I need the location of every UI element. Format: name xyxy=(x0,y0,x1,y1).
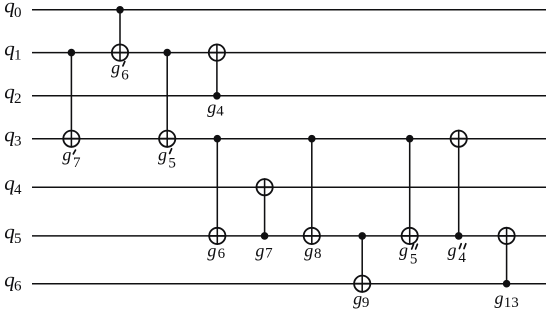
label q0 xyxy=(4,0,21,21)
svg-text:6: 6 xyxy=(14,279,22,295)
label q1 xyxy=(4,36,21,63)
label g''5 xyxy=(399,240,417,267)
label g13 xyxy=(495,288,519,311)
label g'6 xyxy=(111,58,129,84)
svg-text:7: 7 xyxy=(73,155,81,171)
svg-text:9: 9 xyxy=(362,295,370,311)
CNOT gate g4: control q2, target q1 xyxy=(208,44,226,100)
svg-text:5: 5 xyxy=(410,252,418,268)
svg-text:4: 4 xyxy=(14,182,22,198)
svg-text:5: 5 xyxy=(168,156,176,172)
wire q1 xyxy=(32,52,546,54)
wire q6 xyxy=(32,283,546,285)
svg-text:6: 6 xyxy=(218,246,226,262)
svg-text:6: 6 xyxy=(121,67,129,83)
CNOT gate g13: control q6, target q5 xyxy=(498,227,516,288)
svg-text:g: g xyxy=(255,241,264,261)
CNOT gate g'6: control q0, target q1 xyxy=(111,6,129,62)
label g''4 xyxy=(448,240,467,266)
svg-text:2: 2 xyxy=(14,91,22,107)
svg-text:5: 5 xyxy=(14,231,22,247)
svg-text:7: 7 xyxy=(265,246,273,262)
svg-text:8: 8 xyxy=(314,246,322,262)
svg-text:3: 3 xyxy=(14,134,22,150)
wire q4 xyxy=(32,186,546,188)
label g'7 xyxy=(62,145,81,172)
svg-text:4: 4 xyxy=(216,104,224,120)
label q6 xyxy=(4,268,22,295)
CNOT gate g'5: control q1, target q3 xyxy=(158,49,176,148)
CNOT gate g''5: control q3, target q5 xyxy=(401,135,419,245)
label q5 xyxy=(4,220,21,247)
CNOT gate g7: control q5, target q4 xyxy=(256,178,274,240)
wire q2 xyxy=(32,95,546,97)
svg-text:13: 13 xyxy=(504,295,519,311)
svg-text:g: g xyxy=(62,145,71,165)
svg-text:g: g xyxy=(111,58,120,78)
svg-text:g: g xyxy=(495,288,504,308)
label q2 xyxy=(4,80,21,107)
svg-text:g: g xyxy=(399,240,408,260)
wire q0 xyxy=(32,9,546,11)
svg-text:g: g xyxy=(207,97,216,117)
svg-text:g: g xyxy=(448,240,457,260)
svg-text:4: 4 xyxy=(458,250,466,266)
svg-text:g: g xyxy=(207,241,216,261)
svg-text:g: g xyxy=(304,241,313,261)
label g6 xyxy=(207,241,225,262)
CNOT gate g9: control q5, target q6 xyxy=(353,232,371,293)
CNOT gate g'7: control q1, target q3 xyxy=(62,49,80,148)
CNOT gate g8: control q3, target q5 xyxy=(303,135,321,245)
CNOT gate g6: control q3, target q5 xyxy=(208,135,226,245)
CNOT gate g''4: control q5, target q3 xyxy=(450,130,468,240)
label g'5 xyxy=(158,145,176,172)
label q4 xyxy=(4,171,22,198)
wire q3 xyxy=(32,138,546,140)
wire q5 xyxy=(32,235,546,237)
label q3 xyxy=(4,123,21,150)
svg-text:g: g xyxy=(158,145,167,165)
label g7 xyxy=(255,241,273,262)
svg-text:0: 0 xyxy=(14,5,22,21)
svg-text:g: g xyxy=(353,289,362,309)
svg-text:1: 1 xyxy=(14,48,22,64)
label g4 xyxy=(207,97,224,120)
label g8 xyxy=(304,241,321,262)
label g9 xyxy=(353,289,369,311)
